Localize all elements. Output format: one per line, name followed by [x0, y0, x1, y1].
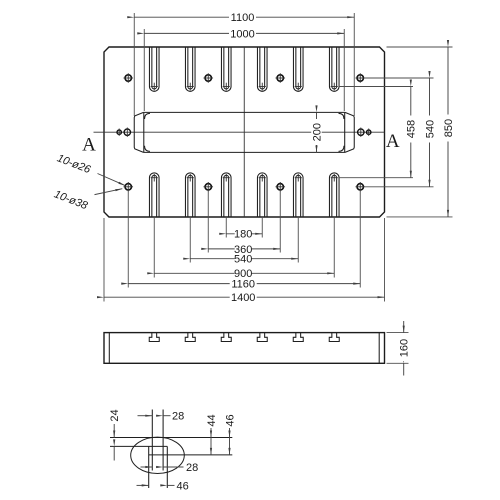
hole Ø38 at (128.25,78) — [125, 75, 131, 81]
central recess — [134, 112, 354, 152]
dim 850 right — [387, 47, 455, 217]
dim 900 bottom — [154, 217, 334, 280]
side view left end face line — [108, 333, 110, 364]
hole Ø38 at (360.25,78) — [357, 75, 363, 81]
dim 458 right — [339, 87, 418, 178]
detail boundary ellipse — [131, 437, 185, 473]
bottom T-slots (6) — [149, 173, 339, 217]
svg-text:200: 200 — [311, 123, 323, 141]
svg-text:24: 24 — [109, 409, 121, 421]
dim 1400 bottom — [104, 218, 385, 304]
top slot cx=226.25 — [221, 47, 231, 91]
holes — [117, 73, 371, 191]
top slot cx=154.25 — [149, 47, 159, 91]
bottom slot cx=298.25 — [293, 173, 303, 217]
dim 540 right — [365, 78, 436, 187]
detail neck right line — [162, 410, 164, 471]
hole Ø38 at (208.25,186.8) — [205, 184, 211, 190]
svg-text:A: A — [386, 131, 400, 152]
dim 200 (recess height) — [311, 112, 323, 152]
svg-text:1160: 1160 — [231, 279, 255, 291]
detail neck-bottom line — [110, 445, 167, 447]
recess bottom edge — [144, 151, 346, 153]
detail cavity right line — [166, 446, 168, 488]
top slot cx=262.25 — [257, 47, 267, 91]
detail cavity left line — [148, 446, 150, 488]
horizontal centerline (section A-A) — [94, 131, 385, 133]
side view T-slot section cx=190.25 — [185, 333, 195, 342]
side hole at (368.7,132.2) r=2.2 — [367, 130, 371, 134]
side hole at (127.3,132.2) r=3.2 — [124, 129, 130, 135]
side view T-slot section cx=334.25 — [329, 333, 339, 342]
top slot cx=190.25 — [185, 47, 195, 91]
top slot cx=298.25 — [293, 47, 303, 91]
dim 180 bottom — [226, 217, 262, 241]
top T-slots (6) — [149, 47, 339, 91]
vertical centerline — [243, 47, 245, 217]
bottom slot cx=262.25 — [257, 173, 267, 217]
recess right inner edge — [344, 113, 346, 152]
dim 28 detail top — [138, 411, 185, 423]
svg-text:28: 28 — [172, 411, 184, 423]
svg-text:46: 46 — [177, 480, 189, 492]
svg-text:540: 540 — [424, 120, 436, 138]
dim 360 bottom — [208, 192, 280, 256]
hole Ø38 at (280.25,78) — [277, 75, 283, 81]
svg-text:44: 44 — [206, 414, 218, 426]
svg-text:A: A — [82, 135, 96, 156]
dim 28 detail middle — [141, 462, 199, 474]
recess right inner corner arcs — [339, 113, 345, 119]
detail cavity-bottom line — [149, 454, 233, 456]
side hole at (360.8,132.2) r=3.2 — [358, 129, 364, 135]
bottom slot cx=226.25 — [221, 173, 231, 217]
side view T-slot section cx=226.25 — [221, 333, 231, 342]
svg-text:28: 28 — [186, 462, 198, 474]
svg-text:1100: 1100 — [231, 12, 255, 24]
recess right outer edge — [345, 112, 354, 152]
hole Ø38 at (128.25,186.8) — [125, 184, 131, 190]
bottom slot cx=154.25 — [149, 173, 159, 217]
dim 44 detail right — [206, 411, 218, 455]
hole Ø38 at (360.25,186.8) — [357, 184, 363, 190]
recess left inner edge — [143, 113, 145, 152]
svg-text:1400: 1400 — [231, 292, 255, 304]
side hole at (119.2,132.2) r=2.2 — [117, 130, 121, 134]
detail neck left line — [151, 410, 153, 471]
dim 1160 bottom — [128, 192, 360, 291]
plate outline — [104, 47, 385, 217]
detail top surface line — [110, 437, 232, 439]
dim 1100 — [134, 12, 354, 116]
side view T-slot section cx=298.25 — [293, 333, 303, 342]
side view right end face line — [378, 333, 380, 364]
svg-text:540: 540 — [234, 254, 252, 266]
dim 46 detail right — [224, 411, 236, 455]
svg-text:160: 160 — [398, 339, 410, 357]
svg-text:180: 180 — [234, 229, 252, 241]
recess left outer edge — [134, 112, 143, 152]
hole Ø38 at (280.25,186.8) — [277, 184, 283, 190]
side view bar outline — [104, 333, 385, 364]
hole Ø38 at (208.25,78) — [205, 75, 211, 81]
dim 540 bottom — [190, 217, 298, 266]
svg-text:458: 458 — [406, 120, 418, 138]
side view T-slot section cx=262.25 — [257, 333, 267, 342]
recess left inner corner arcs — [145, 113, 151, 119]
bottom slot cx=190.25 — [185, 173, 195, 217]
svg-text:850: 850 — [443, 119, 455, 137]
dim 46 detail bottom — [137, 480, 189, 492]
dim 1000 — [144, 28, 344, 111]
top slot cx=334.25 — [329, 47, 339, 91]
svg-text:1000: 1000 — [230, 28, 254, 40]
svg-text:46: 46 — [224, 414, 236, 426]
leader 10-Ø38 — [52, 188, 122, 212]
leader 10-Ø26 — [55, 152, 125, 185]
dim 160 side view — [387, 321, 411, 376]
bottom dimension stack — [104, 192, 385, 305]
side view T-slot section cx=154.25 — [149, 333, 159, 342]
bottom slot cx=334.25 — [329, 173, 339, 217]
dim 24 detail — [109, 407, 121, 461]
recess top edge — [144, 111, 346, 113]
